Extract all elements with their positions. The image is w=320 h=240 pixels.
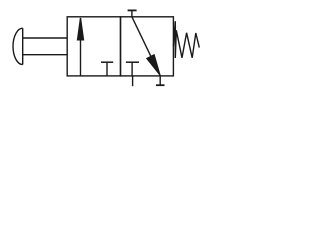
plunger rod bottom line: [23, 54, 67, 56]
flow arrowhead up: [78, 18, 84, 40]
port 3 stub below: [159, 76, 161, 85]
port 3 cap crossbar: [156, 84, 165, 86]
port 1 stub below: [132, 76, 134, 86]
return spring: [173, 21, 199, 58]
blocked port T (left box) crossbar: [101, 61, 113, 63]
blocked port T (right box) stem: [131, 62, 133, 76]
blocked port T (right box) crossbar: [126, 61, 139, 63]
button mushroom arc: [13, 28, 23, 64]
valve body left square: [67, 17, 120, 76]
exhaust arrowhead down: [147, 55, 160, 75]
valve body right square: [121, 17, 174, 76]
blocked port T (left box) stem: [106, 62, 108, 76]
push button actuator: [13, 28, 67, 64]
plunger rod top line: [23, 37, 67, 39]
flow arrow shaft (left box, 1 to 2): [80, 19, 82, 76]
button face line: [22, 28, 24, 64]
exhaust diagonal line (right box, 2 to 3): [132, 17, 160, 76]
port 2 stub above: [131, 10, 133, 16]
valve V1 3/2-way push-button valve: [0, 0, 215, 90]
port 2 cap crossbar: [128, 9, 137, 11]
